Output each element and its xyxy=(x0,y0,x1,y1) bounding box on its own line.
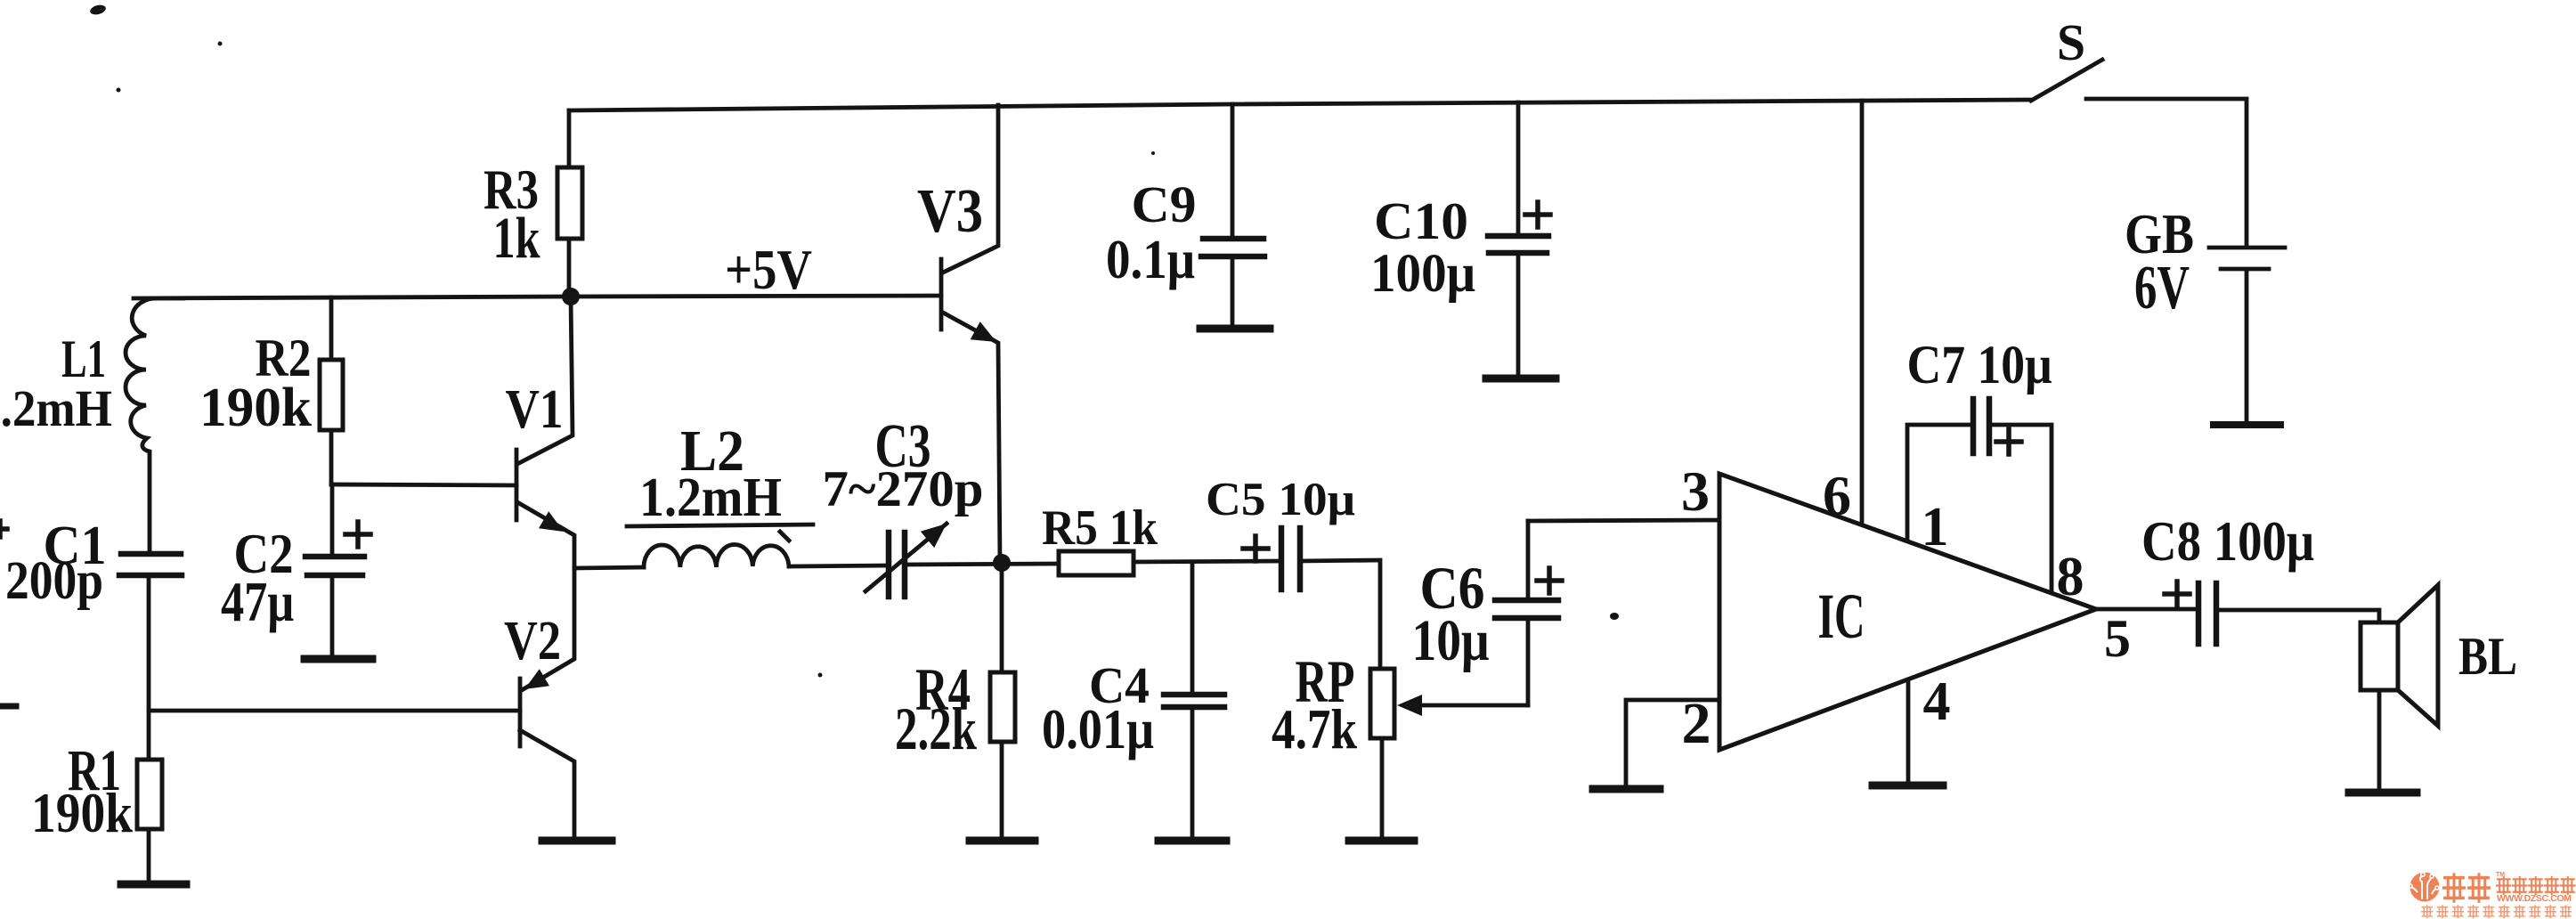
svg-text:V1: V1 xyxy=(506,379,564,440)
svg-text:6: 6 xyxy=(1823,464,1851,527)
svg-text:TM: TM xyxy=(2496,872,2505,878)
svg-text:8: 8 xyxy=(2057,547,2084,607)
svg-text:S: S xyxy=(2057,13,2085,71)
svg-text:C10: C10 xyxy=(1374,191,1468,250)
svg-text:1.2mH: 1.2mH xyxy=(639,468,782,528)
svg-text:1.2mH: 1.2mH xyxy=(0,379,112,437)
svg-text:3: 3 xyxy=(1681,459,1710,523)
svg-text:V2: V2 xyxy=(504,611,561,671)
svg-text:7~270p: 7~270p xyxy=(823,461,984,517)
svg-text:1k: 1k xyxy=(493,206,540,271)
svg-text:C9: C9 xyxy=(1132,175,1197,233)
svg-text:IC: IC xyxy=(1818,581,1865,652)
svg-text:+5V: +5V xyxy=(725,239,812,301)
svg-text:190k: 190k xyxy=(31,781,133,844)
svg-text:C8 100μ: C8 100μ xyxy=(2141,510,2314,573)
svg-text:5: 5 xyxy=(2104,609,2131,668)
svg-text:C5 10μ: C5 10μ xyxy=(1206,474,1355,525)
svg-text:6V: 6V xyxy=(2134,254,2190,322)
svg-text:V3: V3 xyxy=(917,177,983,246)
svg-text:0.01μ: 0.01μ xyxy=(1042,697,1154,760)
svg-text:WWW.DZSC.COM: WWW.DZSC.COM xyxy=(2497,893,2572,904)
svg-text:4.7k: 4.7k xyxy=(1272,697,1357,760)
svg-text:190k: 190k xyxy=(199,378,313,438)
svg-text:R5 1k: R5 1k xyxy=(1042,500,1158,556)
svg-text:10μ: 10μ xyxy=(1412,608,1490,673)
svg-text:47μ: 47μ xyxy=(221,570,294,633)
svg-text:BL: BL xyxy=(2458,627,2517,686)
svg-text:4: 4 xyxy=(1923,671,1951,732)
svg-text:200p: 200p xyxy=(5,551,103,611)
svg-text:2: 2 xyxy=(1682,691,1711,756)
svg-text:0.1μ: 0.1μ xyxy=(1106,230,1195,290)
svg-text:1: 1 xyxy=(1922,497,1949,557)
svg-text:C7 10μ: C7 10μ xyxy=(1907,336,2052,395)
svg-text:2.2k: 2.2k xyxy=(895,695,977,762)
svg-text:100μ: 100μ xyxy=(1370,244,1475,304)
